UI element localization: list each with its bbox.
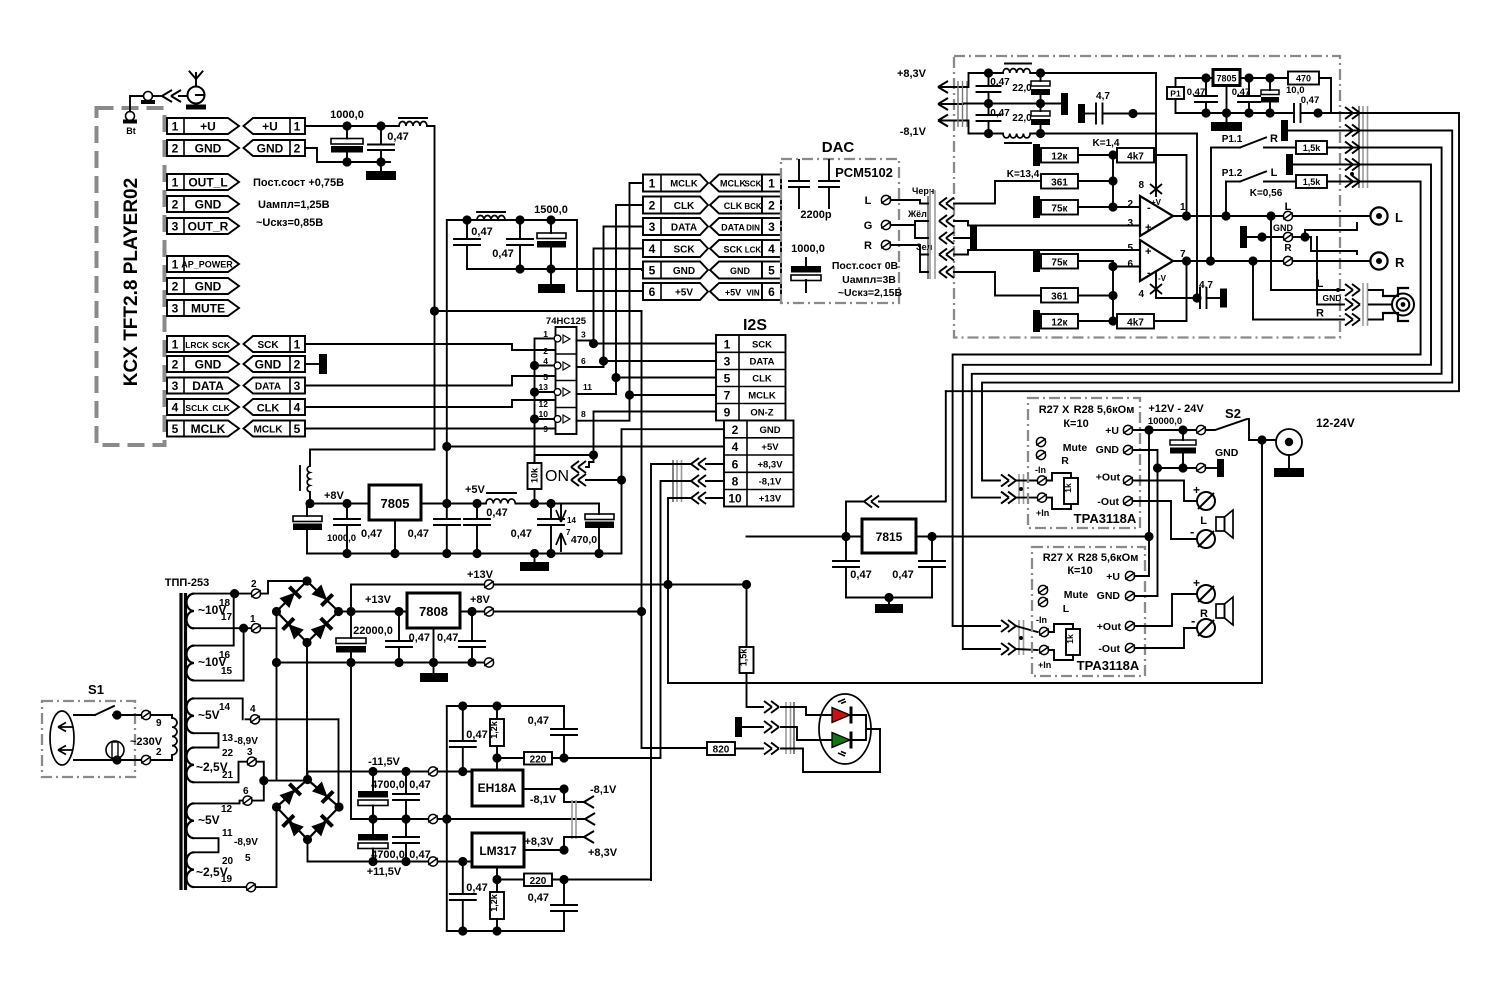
regulator LM317 — [472, 833, 524, 867]
svg-text:2: 2 — [172, 142, 179, 156]
svg-text:GND: GND — [1323, 293, 1342, 303]
resistor 361 (top) — [1041, 174, 1118, 189]
labels TPA1 — [1035, 404, 1137, 526]
svg-text:R28 5,6кОм: R28 5,6кОм — [1074, 404, 1135, 416]
svg-text:1: 1 — [768, 177, 775, 191]
svg-text:0,47: 0,47 — [990, 108, 1010, 119]
svg-text:8: 8 — [1138, 180, 1144, 191]
capacitor 0,47 (DAC filter mid) — [492, 220, 533, 269]
wire bridge1 left to center tap line — [276, 612, 278, 781]
connector X3 GND — [167, 278, 239, 294]
svg-text:5: 5 — [245, 853, 251, 864]
svg-text:13: 13 — [222, 733, 234, 744]
+5V rail after inductor — [516, 503, 600, 505]
speaker terminal + (L ch) — [1193, 576, 1215, 603]
svg-text:0,47: 0,47 — [528, 715, 549, 727]
capacitor 4700,0 (neg) — [358, 767, 405, 824]
svg-text:R: R — [864, 240, 872, 252]
capacitor 4700,0 (pos) — [358, 819, 405, 866]
svg-text:12к: 12к — [1051, 318, 1068, 329]
connector X1 row1 +U (left) — [167, 118, 239, 134]
svg-text:-8,1V: -8,1V — [759, 477, 782, 488]
X mark pin4 — [1138, 272, 1197, 300]
wire bridge1 out to +13V node — [339, 611, 352, 613]
wire L to phone jack — [1271, 216, 1344, 290]
chevrons LED rows — [764, 701, 779, 713]
terminal gnd S2 — [1196, 463, 1206, 472]
TPA3118A upper dash-dot box — [1028, 398, 1140, 528]
capacitor 2200p b — [800, 160, 839, 221]
terminal Mute2 a — [1038, 585, 1048, 594]
terminal +13V — [484, 580, 494, 589]
connector chevrons I2S row8 — [691, 475, 706, 487]
wire +13V down to S2 line — [667, 585, 669, 684]
terminal -Out (TPA1) — [1123, 496, 1133, 505]
svg-text:361: 361 — [1051, 292, 1068, 303]
capacitor 1000,0 (DAC) — [791, 243, 825, 292]
svg-text:2: 2 — [294, 358, 301, 372]
svg-text:P1.2: P1.2 — [1222, 168, 1243, 179]
svg-text:+: + — [1145, 222, 1151, 234]
svg-text:R: R — [1395, 255, 1405, 270]
0V rail (logic) — [307, 553, 622, 555]
wire GND TPA1 — [1133, 450, 1158, 596]
buffer4 glyph — [539, 409, 586, 434]
svg-text:220: 220 — [530, 755, 547, 766]
wire +U row to filter — [305, 125, 399, 127]
terminal 19 bottom — [246, 807, 276, 892]
svg-text:K=0,56: K=0,56 — [1250, 188, 1283, 199]
svg-text:EH18A: EH18A — [478, 781, 517, 795]
svg-text:3: 3 — [724, 355, 731, 369]
svg-text:CLK: CLK — [212, 403, 230, 413]
svg-text:MCLK: MCLK — [720, 179, 746, 189]
terminal GND (TPA2) — [1125, 591, 1135, 600]
wires into TPA1 — [1016, 481, 1037, 498]
svg-text:+8,3V: +8,3V — [897, 68, 927, 80]
svg-text:3: 3 — [172, 302, 179, 316]
svg-text:2: 2 — [251, 579, 257, 590]
analog block bottom 0V rail — [447, 930, 564, 932]
svg-text:6: 6 — [768, 285, 775, 299]
svg-text:TPA3118A: TPA3118A — [1074, 511, 1137, 526]
capacitor 0,47 (-8,1V filter) — [977, 104, 1011, 139]
connector X4 row2 GND (right mate) — [244, 356, 306, 372]
wire SCK to I2S — [594, 343, 717, 345]
analog block left 0V vertical — [446, 706, 448, 931]
bar 12k bottom gnd — [1033, 310, 1040, 332]
wire DAC row2 CLK down — [616, 205, 643, 378]
node +U cap2 — [376, 121, 385, 130]
wire R to phone jack — [1253, 261, 1344, 320]
wire bridge2 minus to -11,5V rail — [308, 772, 463, 780]
wire ch5 to 361 (R) — [954, 272, 1041, 296]
capacitor 0,47 (EH18A out) — [528, 706, 577, 758]
svg-text:1500,0: 1500,0 — [534, 204, 568, 216]
svg-text:1: 1 — [172, 338, 179, 352]
resistor 10k — [528, 463, 542, 504]
svg-text:+U: +U — [1106, 571, 1120, 583]
wire +Out TPA2 to speaker — [1135, 594, 1198, 626]
long line row1 out — [946, 113, 1459, 391]
svg-text:-In: -In — [1035, 465, 1046, 475]
capacitor 4,7 (+V decouple) — [1078, 91, 1156, 124]
inductor L3 (+8V feed) — [300, 466, 310, 504]
bus hatch (DAC to amp) — [928, 190, 935, 279]
resistor 361 (bottom) — [1041, 288, 1118, 303]
terminal -In (TPA2) — [1039, 627, 1049, 636]
capacitor 0,47 (+5V out) — [511, 504, 564, 554]
terminal +In (TPA2) — [1039, 645, 1049, 654]
ground (7808) — [420, 663, 448, 683]
bar feedthrough (input gnd) — [970, 226, 977, 250]
svg-text:10000,0: 10000,0 — [1148, 416, 1182, 427]
svg-text:L: L — [1200, 515, 1207, 527]
+5V rail — [421, 503, 486, 505]
winding ~5V (12/11) — [186, 803, 258, 848]
svg-text:12-24V: 12-24V — [1316, 416, 1355, 430]
off-page arrow pin14 — [556, 505, 576, 525]
resistor 1,5k (R out) — [1296, 141, 1344, 154]
resistor 470 — [1265, 72, 1331, 114]
input chevrons from DAC — [939, 198, 954, 210]
wire winding21 to terminal 3 — [194, 762, 247, 783]
terminal Mute1 b — [1036, 450, 1046, 459]
resistor 1,2k (LM317) — [489, 880, 504, 932]
wire terminal2 to bridge1 — [261, 581, 307, 594]
svg-text:-8,1V: -8,1V — [900, 126, 927, 138]
svg-text:S1: S1 — [88, 682, 104, 697]
svg-text:+5V: +5V — [761, 442, 779, 453]
svg-text:4k7: 4k7 — [1127, 152, 1144, 163]
connector chevrons « — [162, 90, 188, 102]
capacitor 0,47 (7808 out) — [437, 612, 485, 663]
svg-text:0,47: 0,47 — [486, 507, 507, 519]
svg-text:K=13,4: K=13,4 — [1007, 169, 1040, 180]
svg-text:-In: -In — [1036, 615, 1047, 625]
terminal 4 — [246, 704, 339, 724]
terminal 0V mid — [428, 814, 438, 823]
chevrons out row3 — [1345, 142, 1360, 154]
svg-text:G: G — [864, 220, 873, 232]
svg-text:-8,9V: -8,9V — [234, 837, 258, 848]
node EH18A adj — [492, 753, 501, 762]
speaker icon (lower) — [1200, 597, 1233, 625]
connector X1 row2 GND (right mate) — [244, 140, 306, 156]
transformer core — [165, 577, 210, 890]
bus hatch line out — [1359, 106, 1368, 188]
svg-text:1,2k: 1,2k — [489, 893, 499, 912]
wire +U TPA2 — [1135, 575, 1149, 577]
svg-text:+In: +In — [1038, 660, 1051, 670]
wire DATA to I2S — [604, 360, 717, 362]
resistor 820 — [707, 742, 763, 756]
terminal 9 (primary) — [141, 710, 172, 729]
svg-text:+U: +U — [262, 120, 278, 134]
chevrons out row4 — [1345, 159, 1360, 171]
terminal +11,5V — [428, 857, 438, 866]
wire +U branch to +8V junction — [435, 310, 642, 312]
connector X2 OUT_R — [167, 218, 239, 234]
bus hatch I2S power — [673, 460, 682, 502]
capacitor 22,0 (-8,1V) — [1012, 104, 1050, 139]
wire 0V filter mid — [964, 103, 1061, 105]
wire +8V to right — [494, 611, 642, 613]
resistor 4k7 (top) — [1108, 148, 1186, 216]
svg-text:SCK: SCK — [212, 340, 231, 350]
connector X4 row3 DATA (left) — [167, 378, 239, 394]
long line row4 out — [963, 165, 1431, 650]
jack 12-24V — [1274, 416, 1355, 477]
svg-text:12: 12 — [539, 399, 549, 409]
svg-text:1,5k: 1,5k — [1303, 177, 1322, 187]
inductor (-8,1V filter) — [1003, 134, 1197, 144]
svg-text:10: 10 — [539, 409, 549, 419]
capacitor 0,47 (EH18A in) — [450, 706, 488, 772]
buffer1 output wire — [577, 341, 594, 344]
svg-text:DAC: DAC — [822, 139, 855, 156]
svg-text:4: 4 — [250, 704, 256, 715]
wire +5V to I2S row4 — [447, 446, 724, 448]
terminal +U (TPA1) — [1123, 425, 1133, 434]
svg-text:0,47: 0,47 — [409, 779, 430, 791]
wire bridge2 plus to +11,5V rail — [308, 840, 463, 862]
svg-text:К=10: К=10 — [1063, 418, 1088, 430]
indicator lamp — [141, 92, 155, 105]
terminal 2 (primary bottom) — [141, 747, 172, 765]
enable bus 74HC125 — [535, 339, 555, 464]
svg-text:-8,1V: -8,1V — [530, 794, 557, 806]
capacitor 0,47 (pos) — [393, 819, 431, 866]
capacitor 0,47 (7815 in) — [833, 537, 872, 598]
wire G to amp bus — [891, 209, 928, 238]
svg-text:4k7: 4k7 — [1127, 318, 1144, 329]
wire -Out TPA1 to speaker — [1133, 501, 1198, 539]
wire SCK row to buffer1 — [305, 344, 556, 350]
svg-text:18: 18 — [219, 598, 231, 609]
capacitor 0,47 (line out coupling) — [1294, 95, 1344, 122]
svg-text:15: 15 — [221, 666, 233, 677]
chevrons TPA1 in — [1001, 475, 1016, 487]
terminal R line out — [1283, 256, 1293, 265]
svg-text:R27 X: R27 X — [1039, 404, 1070, 416]
bar 12k top gnd — [1033, 144, 1040, 166]
connector X4 row4 CLK (right mate) — [244, 399, 306, 415]
svg-text:2: 2 — [768, 199, 775, 213]
audio level annotations — [253, 177, 344, 229]
chevrons phone jack — [1345, 284, 1360, 296]
node +U cap1 — [342, 121, 351, 130]
svg-text:5: 5 — [1127, 243, 1133, 254]
svg-text:K=1,4: K=1,4 — [1093, 138, 1120, 149]
svg-text:4700,0: 4700,0 — [371, 779, 405, 791]
capacitor 470,0 (+5V) — [571, 504, 614, 554]
svg-text:2: 2 — [294, 142, 301, 156]
speaker terminal - (L ch) — [1191, 613, 1215, 637]
gnd distribution line out — [1240, 223, 1294, 254]
antenna jack circle — [186, 72, 206, 110]
svg-text:VIN: VIN — [746, 289, 760, 298]
svg-text:SCLK: SCLK — [185, 403, 209, 413]
svg-text:3: 3 — [294, 379, 301, 393]
svg-text:4: 4 — [732, 440, 739, 454]
I2S upper table — [716, 335, 786, 421]
transformer primary winding — [172, 715, 177, 760]
svg-text:4: 4 — [768, 242, 775, 256]
capacitor 10,0 — [1261, 78, 1305, 118]
resistor 1k (TPA2 in) — [1049, 624, 1080, 660]
terminal +U (TPA2) — [1125, 571, 1135, 580]
wire -Out TPA2 to speaker — [1135, 628, 1198, 648]
svg-text:L: L — [1271, 167, 1278, 179]
svg-text:GND: GND — [1273, 223, 1294, 233]
terminal -In (TPA1) — [1037, 476, 1047, 485]
svg-text:-: - — [1191, 613, 1195, 628]
svg-text:1: 1 — [172, 120, 179, 134]
svg-text:5: 5 — [649, 264, 656, 278]
node ON to GND — [617, 475, 626, 484]
connector X4 row1 SCK (right mate) — [244, 336, 306, 352]
resistor 75к (top) — [1041, 200, 1113, 215]
DAC filter ground rail — [467, 268, 642, 270]
relay P1 — [1167, 78, 1206, 113]
svg-text:ТПП-253: ТПП-253 — [165, 577, 210, 589]
svg-text:OUT_L: OUT_L — [188, 176, 227, 190]
connector X4 row1 LRCK SCK (left) — [167, 336, 239, 352]
svg-text:К=10: К=10 — [1067, 565, 1092, 577]
svg-text:5: 5 — [172, 422, 179, 436]
DAC connector row5 GND (right) — [710, 262, 781, 279]
svg-text:~5V: ~5V — [198, 813, 220, 827]
capacitor 0,47 (neg) — [393, 767, 431, 824]
svg-text:GND: GND — [1215, 447, 1239, 459]
wire +8,3V to chevron — [564, 837, 584, 850]
terminal R (DAC out) — [864, 240, 891, 252]
svg-text:0,47: 0,47 — [437, 632, 458, 644]
svg-text:6: 6 — [732, 458, 739, 472]
svg-text:3: 3 — [1127, 218, 1133, 229]
capacitor 0,47 (+U filter) — [368, 126, 409, 162]
node SCK junction — [589, 339, 598, 348]
connector X2 GND — [167, 196, 239, 212]
svg-text:0,47: 0,47 — [492, 248, 513, 260]
wire EH18A out — [523, 788, 564, 790]
svg-text:Uампл=3В: Uампл=3В — [842, 274, 896, 286]
svg-text:20: 20 — [222, 856, 234, 867]
connector X4 row5 MCLK (left) — [167, 421, 239, 437]
terminal L (DAC out) — [865, 195, 891, 207]
svg-text:0,47: 0,47 — [387, 131, 408, 143]
parallel link 15/17 — [194, 628, 244, 680]
long line row5 out — [953, 182, 1421, 627]
svg-text:13: 13 — [539, 382, 549, 392]
bar GND (X4 row2 termination) — [305, 354, 327, 374]
winding ~10V (16/15) — [186, 646, 232, 681]
node op2 out — [1173, 260, 1370, 262]
wire ch2 to opamp1 + — [954, 221, 1140, 226]
regulator 7815 — [862, 519, 916, 553]
svg-text:4: 4 — [294, 401, 301, 415]
bar gnd out row2 — [1281, 120, 1344, 141]
node DATA junction — [599, 356, 608, 365]
labels TPA2 — [1036, 552, 1140, 673]
DAC connector row6 +5V VIN (right) — [710, 283, 781, 300]
svg-text:1: 1 — [294, 338, 301, 352]
svg-text:3: 3 — [768, 220, 775, 234]
phone jack 3,5mm — [1369, 288, 1414, 321]
wire ch3 to gnd bar — [954, 237, 970, 239]
bar 75k top gnd — [1033, 196, 1040, 218]
ground (DAC filter) — [538, 269, 565, 293]
svg-text:2: 2 — [1127, 199, 1133, 210]
regulator EH18A — [472, 758, 523, 806]
svg-text:3: 3 — [247, 747, 253, 758]
bar gnd (LED common) — [735, 717, 763, 737]
svg-text:DATA: DATA — [671, 223, 697, 234]
svg-text:GND: GND — [195, 358, 222, 372]
svg-text:DATA: DATA — [192, 379, 224, 393]
node +13V junction — [663, 580, 672, 589]
svg-text:-: - — [1147, 202, 1151, 214]
svg-text:MUTE: MUTE — [191, 302, 225, 316]
chevron +8,3V out — [584, 831, 594, 843]
capacitor 22,0 (+8,3V) — [1012, 68, 1050, 108]
svg-text:KCX TFT2.8 PLAYER02: KCX TFT2.8 PLAYER02 — [121, 178, 142, 386]
svg-text:0,47: 0,47 — [408, 528, 429, 540]
svg-text:CLK: CLK — [752, 374, 772, 385]
battery Bt — [123, 96, 143, 136]
connector chevrons I2S row6 — [691, 458, 706, 470]
wire +8,3V to filter — [964, 73, 1003, 87]
arrow -8,1V — [938, 115, 964, 127]
RCA jack L — [1293, 207, 1403, 225]
svg-text:~Uскз=2,15В: ~Uскз=2,15В — [838, 287, 903, 299]
connector X4 row4 SCLK CLK (left) — [167, 399, 239, 415]
svg-text:21: 21 — [222, 770, 234, 781]
winding ~5V (14/13) — [186, 698, 258, 747]
svg-text:6: 6 — [649, 285, 656, 299]
capacitor 0,47 (LM317 out) — [528, 880, 577, 932]
DAC connector row3 DATA (left) — [643, 218, 708, 235]
speaker terminal - (R ch) — [1190, 524, 1215, 548]
terminal +Out (TPA2) — [1125, 621, 1135, 630]
terminal 6 — [243, 781, 264, 806]
DAC connector row4 SCK (left) — [643, 240, 708, 257]
LED return loop — [781, 729, 880, 772]
7805 analog gnd rail — [1176, 112, 1295, 114]
inductor L4 (+5V) — [486, 493, 516, 519]
svg-text:MCLK: MCLK — [670, 179, 698, 190]
DAC connector row3 DATA DIN (right) — [710, 218, 781, 235]
connector X4 row2 GND (left) — [167, 356, 239, 372]
ground (logic rail) — [520, 554, 549, 572]
vertical feed from +U filter to DAC filter — [447, 220, 448, 504]
svg-text:0,47: 0,47 — [361, 528, 382, 540]
svg-text:1k: 1k — [1063, 483, 1073, 493]
wires to EH18A/LM317 block — [438, 772, 585, 862]
X mark pin8 — [1138, 180, 1162, 207]
svg-text:GND: GND — [257, 142, 284, 156]
wire DAC row5 GND left (to filter gnd rail) — [642, 269, 643, 270]
connector X1 row2 GND (left) — [167, 140, 239, 156]
arrow 0V — [938, 98, 964, 110]
inductor L2 (DAC filter) — [477, 212, 505, 220]
+8V out 7808 — [460, 611, 484, 613]
link windings 11/20 — [194, 838, 219, 852]
terminal Mute2 b — [1038, 597, 1048, 606]
inductor L1 (+U filter) — [399, 118, 427, 126]
capacitor 0,47 (DAC filter input) — [454, 220, 493, 269]
